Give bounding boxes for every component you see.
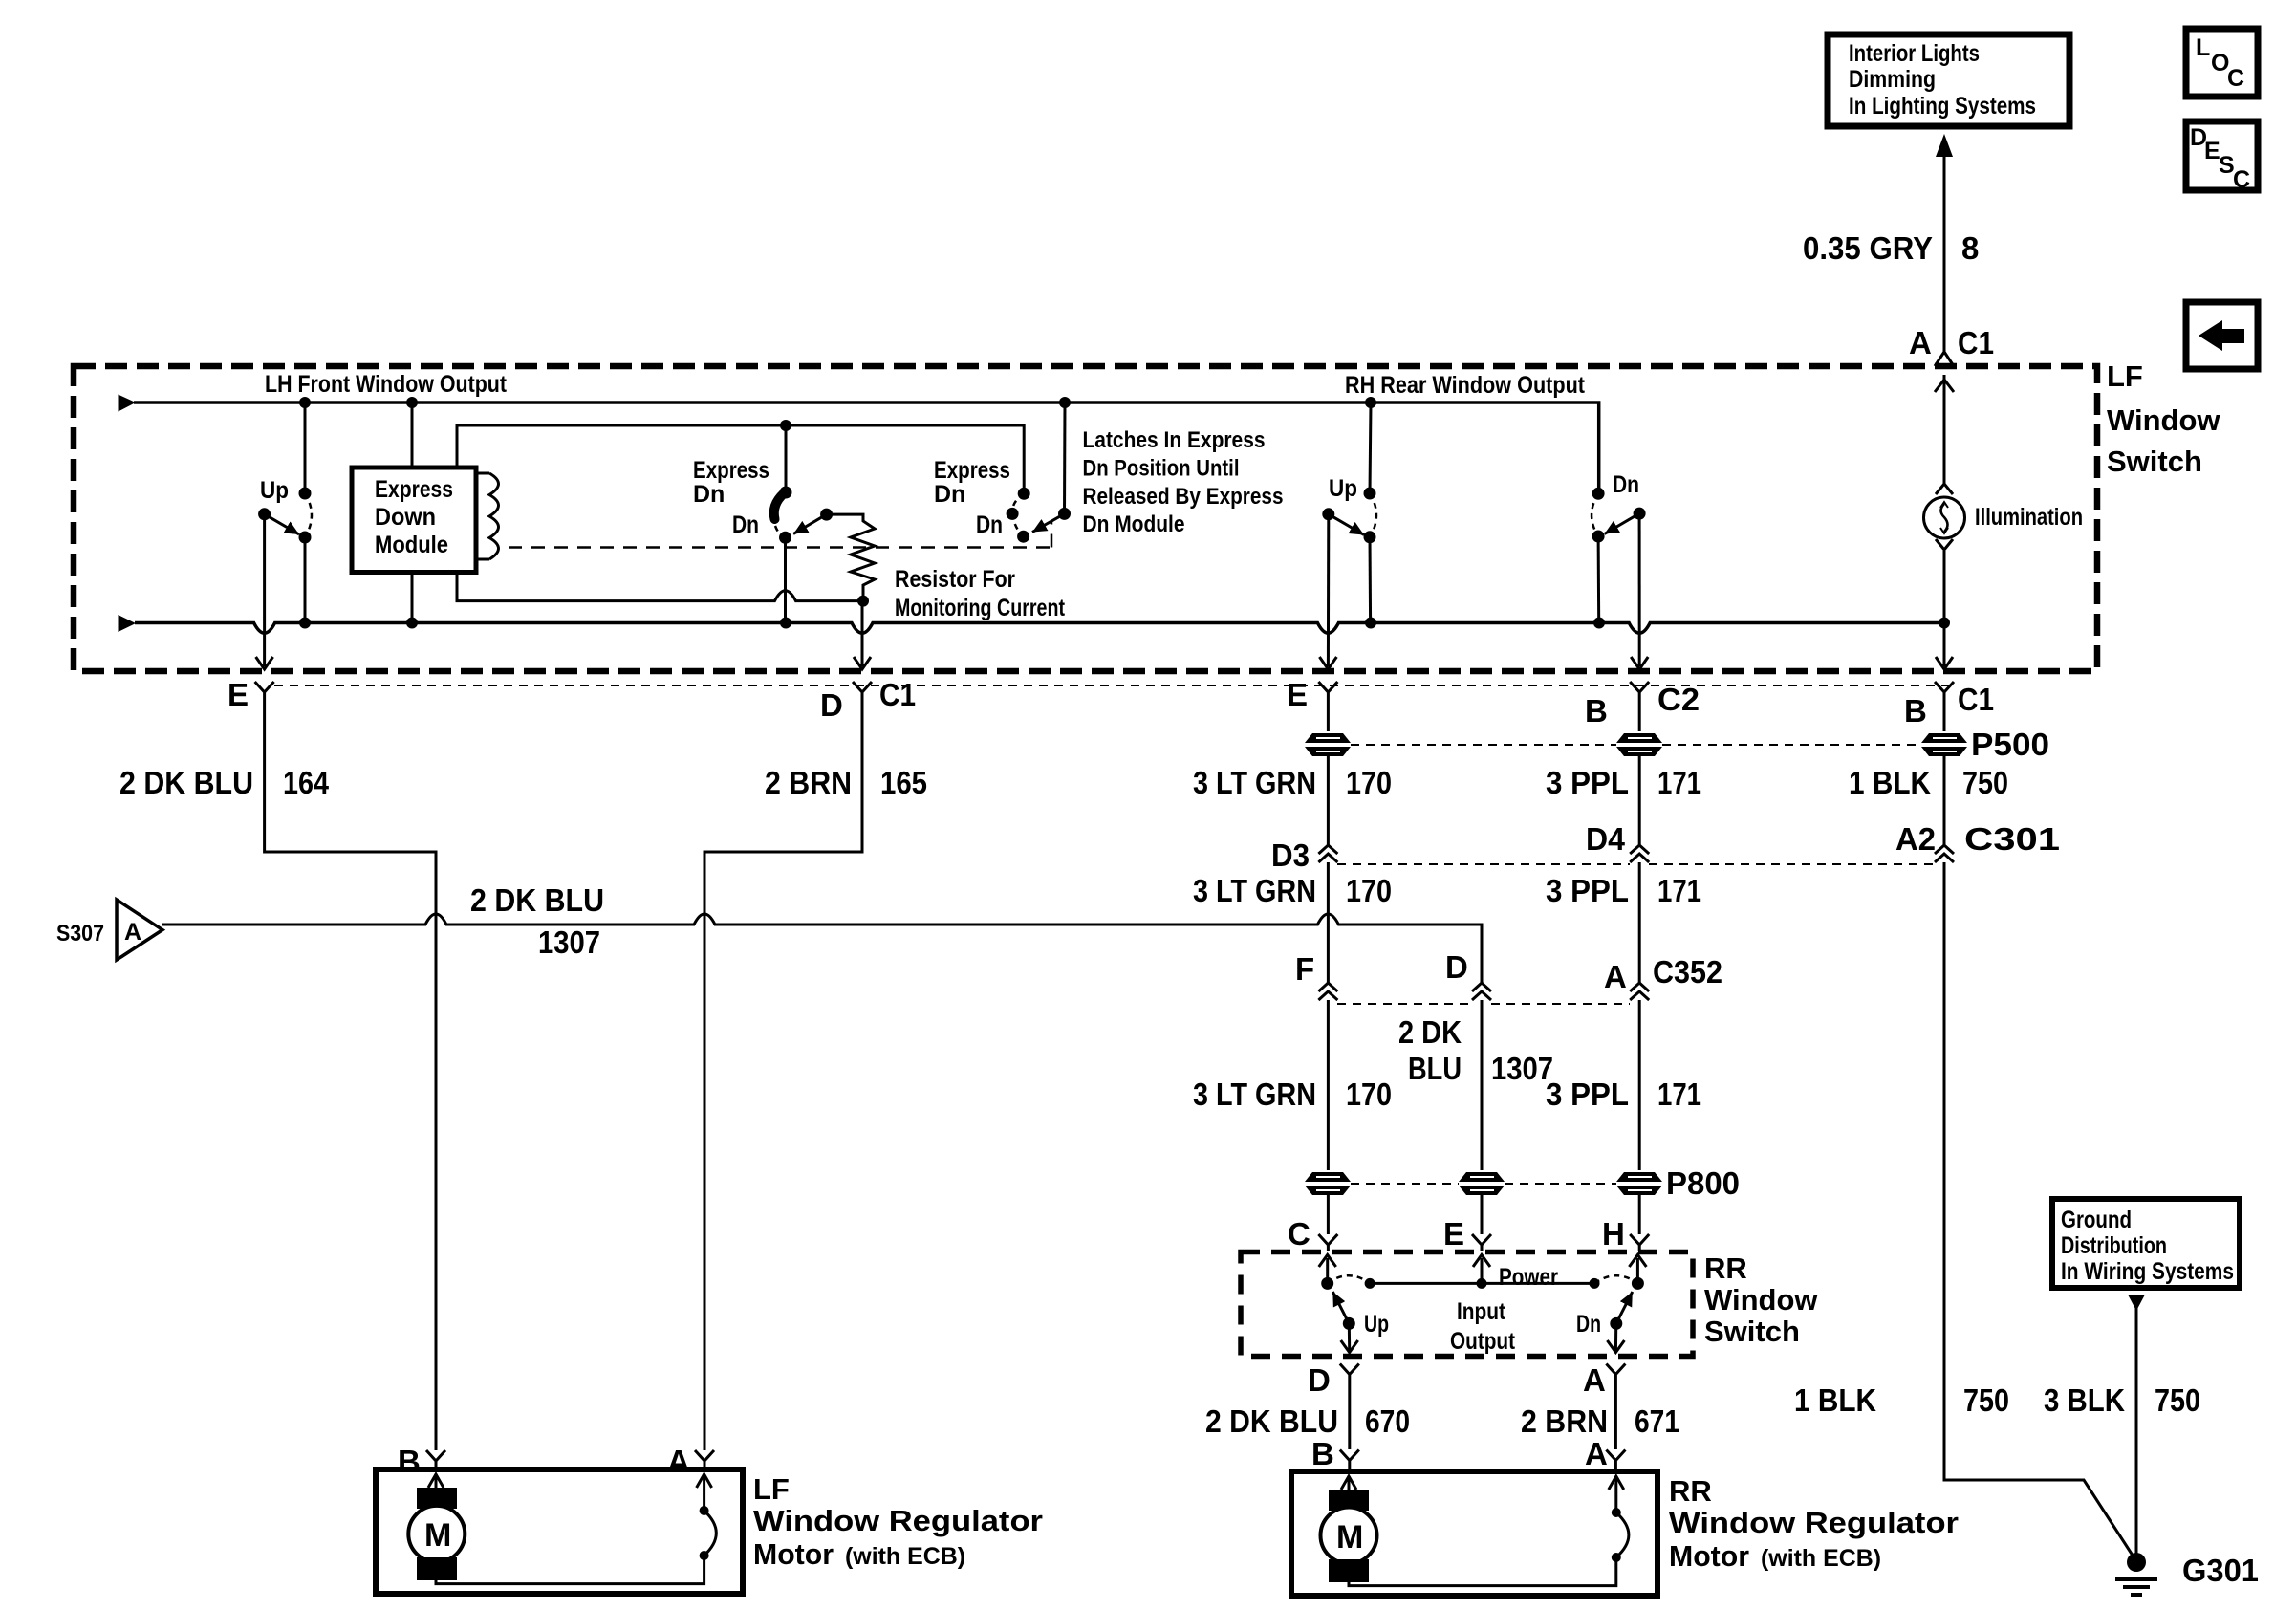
switch S-ExpressDn-2 (express down release contact) xyxy=(934,402,1071,543)
svg-text:Express: Express xyxy=(934,457,1010,484)
wire RR switch power input bus xyxy=(1365,1255,1600,1356)
node LF Window Switch (dashed component box) xyxy=(74,359,2220,671)
node DESC legend box xyxy=(2186,121,2258,193)
connector P500 dashed tie line xyxy=(1351,744,1921,746)
connector P800 dashed tie line xyxy=(1351,1183,1616,1185)
svg-text:G301: G301 xyxy=(2182,1553,2259,1588)
value label 0.35 GRY circuit 8 xyxy=(1803,230,1979,266)
svg-text:Dn: Dn xyxy=(1613,471,1639,498)
connector boundary dashed line (switch connector faces) xyxy=(274,685,1950,686)
svg-text:Switch: Switch xyxy=(2107,445,2202,478)
wire 3 BLK 750 (ground distribution to G301) xyxy=(2044,1295,2200,1561)
svg-text:171: 171 xyxy=(1657,1077,1701,1112)
svg-text:Up: Up xyxy=(1364,1311,1389,1338)
wire module return to bottom bus xyxy=(411,573,414,623)
switch LF Up (window up contact) xyxy=(256,402,312,669)
svg-text:P800: P800 xyxy=(1666,1165,1740,1201)
svg-text:Window: Window xyxy=(1704,1283,1818,1316)
svg-text:3 BLK: 3 BLK xyxy=(2044,1382,2125,1418)
svg-text:A2: A2 xyxy=(1895,821,1936,857)
wire label 3 LT GRN 170 (row 2) xyxy=(1193,873,1392,908)
svg-text:C1: C1 xyxy=(1958,325,1994,360)
svg-text:LF: LF xyxy=(753,1472,790,1506)
svg-text:LH Front Window Output: LH Front Window Output xyxy=(265,371,508,398)
svg-text:BLU: BLU xyxy=(1408,1051,1462,1086)
node LOC legend box xyxy=(2186,29,2258,97)
svg-text:RR: RR xyxy=(1669,1474,1712,1508)
svg-text:B: B xyxy=(1585,693,1608,729)
connector C301 dashed tie line xyxy=(1337,863,1935,865)
svg-text:A: A xyxy=(1583,1362,1606,1398)
svg-text:C: C xyxy=(2233,166,2250,193)
svg-text:8: 8 xyxy=(1961,230,1979,266)
svg-text:Dimming: Dimming xyxy=(1849,66,1936,93)
connector pin H (RR switch) xyxy=(1602,1195,1649,1251)
wire 2 BRN 671 (RR switch A to motor A) xyxy=(1521,1382,1679,1449)
svg-text:1 BLK: 1 BLK xyxy=(1849,765,1931,800)
svg-text:2 DK BLU: 2 DK BLU xyxy=(470,882,604,918)
svg-text:1 BLK: 1 BLK xyxy=(1794,1382,1876,1418)
svg-text:171: 171 xyxy=(1657,765,1701,800)
connector P800 pass-through (LT GRN) xyxy=(1305,1172,1351,1195)
svg-text:D: D xyxy=(820,687,843,723)
svg-text:E: E xyxy=(227,677,249,712)
svg-text:Monitoring Current: Monitoring Current xyxy=(895,595,1066,621)
svg-text:D: D xyxy=(1445,949,1468,985)
module U1 Express Down Module xyxy=(352,468,476,573)
svg-text:D4: D4 xyxy=(1586,821,1626,857)
svg-text:Dn: Dn xyxy=(1576,1311,1601,1338)
svg-text:170: 170 xyxy=(1346,1077,1392,1112)
svg-text:2 DK: 2 DK xyxy=(1398,1014,1462,1050)
svg-text:C2: C2 xyxy=(1657,682,1700,717)
connector P500 pass-through (BLK) with label xyxy=(1921,727,2049,762)
coil L1 express down module solenoid xyxy=(476,473,499,559)
connector pin E (LF switch C2) xyxy=(1287,677,1337,712)
svg-text:C301: C301 xyxy=(1964,821,2060,857)
connector pin A2 / C301 (in-line) xyxy=(1895,821,2060,862)
connector pin E (RR switch power) xyxy=(1443,1195,1491,1251)
resistor R1 for monitoring current xyxy=(827,514,1066,621)
svg-text:A: A xyxy=(1585,1436,1608,1471)
wire express down loop top (module to express contacts) xyxy=(457,420,1024,493)
svg-text:M: M xyxy=(424,1517,451,1554)
connector pin A (RR motor) xyxy=(1585,1436,1625,1471)
svg-text:Window Regulator: Window Regulator xyxy=(753,1504,1043,1537)
svg-text:A: A xyxy=(124,919,141,946)
connector pin D3 (in-line) xyxy=(1271,838,1337,983)
wire label 3 PPL 171 (row 1) xyxy=(1546,756,1701,845)
svg-text:P500: P500 xyxy=(1971,727,2049,762)
wire LH front window output bus (top bus) xyxy=(119,371,1599,493)
svg-text:171: 171 xyxy=(1657,873,1701,908)
label LF Window Regulator Motor xyxy=(753,1472,1043,1571)
connector P500 pass-through (LT GRN) xyxy=(1305,733,1351,756)
wire 1 BLK 750 segment (B C1 to P500) xyxy=(1943,701,1946,731)
connector P800 pass-through (DK BLU) xyxy=(1459,1172,1505,1195)
wire common return bus (bottom bus) with hops xyxy=(119,615,1945,633)
motor M1 LF Window Regulator Motor xyxy=(376,1469,743,1594)
connector P800 pass-through (PPL) with label xyxy=(1616,1165,1740,1201)
wire 1 BLK 750 (C301 to G301) xyxy=(1794,862,2136,1561)
connector pin B / C1 (illumination ground) xyxy=(1904,682,1994,729)
svg-text:E: E xyxy=(1443,1216,1464,1251)
svg-text:Module: Module xyxy=(375,532,448,558)
svg-text:A: A xyxy=(1604,959,1627,994)
svg-text:2 BRN: 2 BRN xyxy=(765,765,852,800)
svg-text:Power: Power xyxy=(1499,1264,1558,1291)
connector C352 pin A xyxy=(1604,954,1722,1170)
svg-text:Express: Express xyxy=(375,476,453,503)
svg-text:E: E xyxy=(1287,677,1308,712)
connector pin D (LF switch C1) xyxy=(820,677,916,723)
wire label 2 DK BLU 1307 (C352 D drop) xyxy=(1398,1014,1553,1086)
splice S307 xyxy=(56,900,162,960)
switch RR Dn contact xyxy=(1576,1255,1646,1353)
connector pin A (LF motor) xyxy=(667,1444,714,1479)
wire 3 PPL 171 segment (B C2 to P500) xyxy=(1638,701,1641,731)
wire label 3 LT GRN 170 (row 3) xyxy=(1193,1077,1392,1112)
svg-text:Dn Position Until: Dn Position Until xyxy=(1083,456,1240,482)
mechanical linkage dashed (module to express switches) xyxy=(509,522,1051,548)
switch RH Dn (rear window down contact) xyxy=(1592,471,1648,669)
connector pin D (RR switch output) xyxy=(1308,1362,1359,1398)
svg-text:A: A xyxy=(1909,325,1932,360)
svg-text:0.35 GRY: 0.35 GRY xyxy=(1803,230,1933,266)
svg-text:C352: C352 xyxy=(1653,954,1722,990)
svg-text:Input: Input xyxy=(1457,1298,1506,1325)
svg-text:Down: Down xyxy=(375,504,436,531)
svg-text:Window: Window xyxy=(2107,403,2220,437)
svg-text:1307: 1307 xyxy=(1491,1051,1553,1086)
svg-text:F: F xyxy=(1295,951,1314,987)
svg-text:3 LT GRN: 3 LT GRN xyxy=(1193,873,1316,908)
svg-text:M: M xyxy=(1336,1519,1363,1556)
svg-text:Express: Express xyxy=(693,457,769,484)
node Ground Distribution reference box xyxy=(2052,1199,2240,1288)
svg-text:C: C xyxy=(2227,65,2244,92)
connector C352 pin D xyxy=(1445,949,1491,1170)
svg-text:LF: LF xyxy=(2107,359,2143,393)
svg-text:RR: RR xyxy=(1704,1251,1747,1285)
svg-text:A: A xyxy=(667,1444,690,1479)
svg-text:B: B xyxy=(1904,693,1927,729)
svg-text:170: 170 xyxy=(1346,765,1392,800)
switch S-ExpressDn-1 (latching express down contact) xyxy=(693,425,833,623)
wire 2 BRN 165 (D to LF motor A) xyxy=(704,701,927,1450)
svg-text:C1: C1 xyxy=(1958,682,1994,717)
svg-text:Illumination: Illumination xyxy=(1975,504,2083,531)
svg-text:Motor: Motor xyxy=(753,1537,834,1571)
svg-text:750: 750 xyxy=(2155,1382,2200,1418)
connector C352 dashed tie line xyxy=(1337,1003,1630,1005)
svg-text:Distribution: Distribution xyxy=(2061,1232,2167,1259)
wire 0.35 GRY 8 to Interior Lights (arrow up) xyxy=(1936,134,1953,355)
node Interior Lights Dimming reference box xyxy=(1828,34,2069,126)
connector pin B (LF motor) xyxy=(398,1444,445,1479)
svg-text:3 LT GRN: 3 LT GRN xyxy=(1193,1077,1316,1112)
svg-text:H: H xyxy=(1602,1216,1625,1251)
junction dots on top bus xyxy=(299,397,1376,408)
svg-text:750: 750 xyxy=(1963,1382,2009,1418)
svg-text:In Wiring Systems: In Wiring Systems xyxy=(2061,1258,2234,1285)
svg-text:3 PPL: 3 PPL xyxy=(1546,765,1629,800)
connector pin E (LF switch C1) xyxy=(227,677,274,712)
svg-text:S307: S307 xyxy=(56,921,104,946)
label RR Window Regulator Motor xyxy=(1669,1474,1959,1573)
wire 2 DK BLU 670 (RR switch D to motor B) xyxy=(1205,1382,1410,1449)
connector pin B / C2 xyxy=(1585,682,1700,729)
svg-text:Dn Module: Dn Module xyxy=(1083,511,1185,537)
svg-text:3 PPL: 3 PPL xyxy=(1546,873,1629,908)
svg-text:670: 670 xyxy=(1365,1403,1410,1439)
switch RR Up contact xyxy=(1319,1255,1389,1353)
svg-text:Up: Up xyxy=(260,477,289,504)
ground G301 xyxy=(2115,1553,2259,1595)
wire label 3 PPL 171 (row 3) xyxy=(1546,1077,1701,1112)
connector pin D4 (in-line) xyxy=(1586,821,1649,983)
svg-text:2 DK BLU: 2 DK BLU xyxy=(119,765,253,800)
wire label 3 PPL 171 (row 2) xyxy=(1546,873,1701,908)
svg-text:Dn: Dn xyxy=(976,511,1003,538)
svg-text:3 PPL: 3 PPL xyxy=(1546,1077,1629,1112)
wire illumination ground exit to pin B xyxy=(1936,623,1953,670)
connector pin B (RR motor) xyxy=(1311,1436,1359,1471)
wire label 3 LT GRN 170 (row 1) xyxy=(1193,756,1392,845)
svg-text:671: 671 xyxy=(1635,1403,1679,1439)
motor M2 RR Window Regulator Motor xyxy=(1291,1471,1657,1596)
svg-text:Dn: Dn xyxy=(732,511,759,538)
svg-text:Released By Express: Released By Express xyxy=(1083,484,1284,510)
svg-text:164: 164 xyxy=(283,765,330,800)
switch RH Up (rear window up contact) xyxy=(1319,402,1376,669)
svg-text:(with ECB): (with ECB) xyxy=(845,1543,965,1570)
wire label 1 BLK 750 (row 1) xyxy=(1849,756,2008,845)
wire 3 LT GRN 170 segment (E C2 to P500) xyxy=(1327,701,1330,731)
connector C1 pin A at LF window switch top xyxy=(1909,325,1994,392)
svg-text:Switch: Switch xyxy=(1704,1315,1800,1348)
connector pin A (RR switch output) xyxy=(1583,1362,1625,1398)
note latches in express dn text xyxy=(1083,427,1284,537)
wire express down loop bottom (module to resistor) with hop xyxy=(457,573,869,607)
svg-text:Dn: Dn xyxy=(934,481,965,508)
svg-text:D3: D3 xyxy=(1271,838,1310,873)
wire module supply from top bus xyxy=(411,402,414,468)
node back-arrow legend box xyxy=(2186,302,2258,369)
node RR Window Switch (dashed component box) xyxy=(1241,1251,1818,1357)
wire 2 DK BLU 1307 (S307 to C352 D) with hops xyxy=(162,882,1482,983)
svg-text:B: B xyxy=(1311,1436,1334,1471)
svg-text:Interior Lights: Interior Lights xyxy=(1849,40,1980,67)
svg-text:(with ECB): (with ECB) xyxy=(1761,1545,1881,1572)
svg-text:750: 750 xyxy=(1962,765,2008,800)
svg-text:Dn: Dn xyxy=(693,481,725,508)
lamp DS1 illumination xyxy=(1924,375,2084,623)
connector C352 pin F xyxy=(1295,951,1337,1170)
svg-text:2 BRN: 2 BRN xyxy=(1521,1403,1608,1439)
svg-text:Output: Output xyxy=(1450,1328,1516,1355)
svg-text:C: C xyxy=(1288,1216,1310,1251)
svg-text:Motor: Motor xyxy=(1669,1539,1749,1573)
svg-text:1307: 1307 xyxy=(538,925,600,960)
svg-text:C1: C1 xyxy=(879,677,916,712)
connector P500 pass-through (PPL) xyxy=(1616,733,1662,756)
svg-text:170: 170 xyxy=(1346,873,1392,908)
svg-text:Window Regulator: Window Regulator xyxy=(1669,1506,1959,1539)
svg-text:3 LT GRN: 3 LT GRN xyxy=(1193,765,1316,800)
svg-text:Up: Up xyxy=(1329,475,1357,502)
svg-text:Resistor For: Resistor For xyxy=(895,566,1015,593)
svg-text:2 DK BLU: 2 DK BLU xyxy=(1205,1403,1338,1439)
svg-text:RH Rear Window Output: RH Rear Window Output xyxy=(1345,372,1586,399)
junction dots on bottom bus xyxy=(299,618,1950,629)
wire 2 DK BLU 164 (E to LF motor B) xyxy=(119,701,436,1450)
svg-text:Latches In Express: Latches In Express xyxy=(1083,427,1266,453)
svg-text:L: L xyxy=(2196,34,2210,61)
connector pin C (RR switch) xyxy=(1288,1195,1337,1251)
svg-text:B: B xyxy=(398,1444,421,1479)
wire resistor output to pin D (crosses bus, exits box) xyxy=(854,601,871,669)
svg-text:In Lighting Systems: In Lighting Systems xyxy=(1849,93,2036,120)
svg-text:D: D xyxy=(1308,1362,1331,1398)
svg-text:165: 165 xyxy=(880,765,927,800)
svg-text:Ground: Ground xyxy=(2061,1207,2132,1233)
